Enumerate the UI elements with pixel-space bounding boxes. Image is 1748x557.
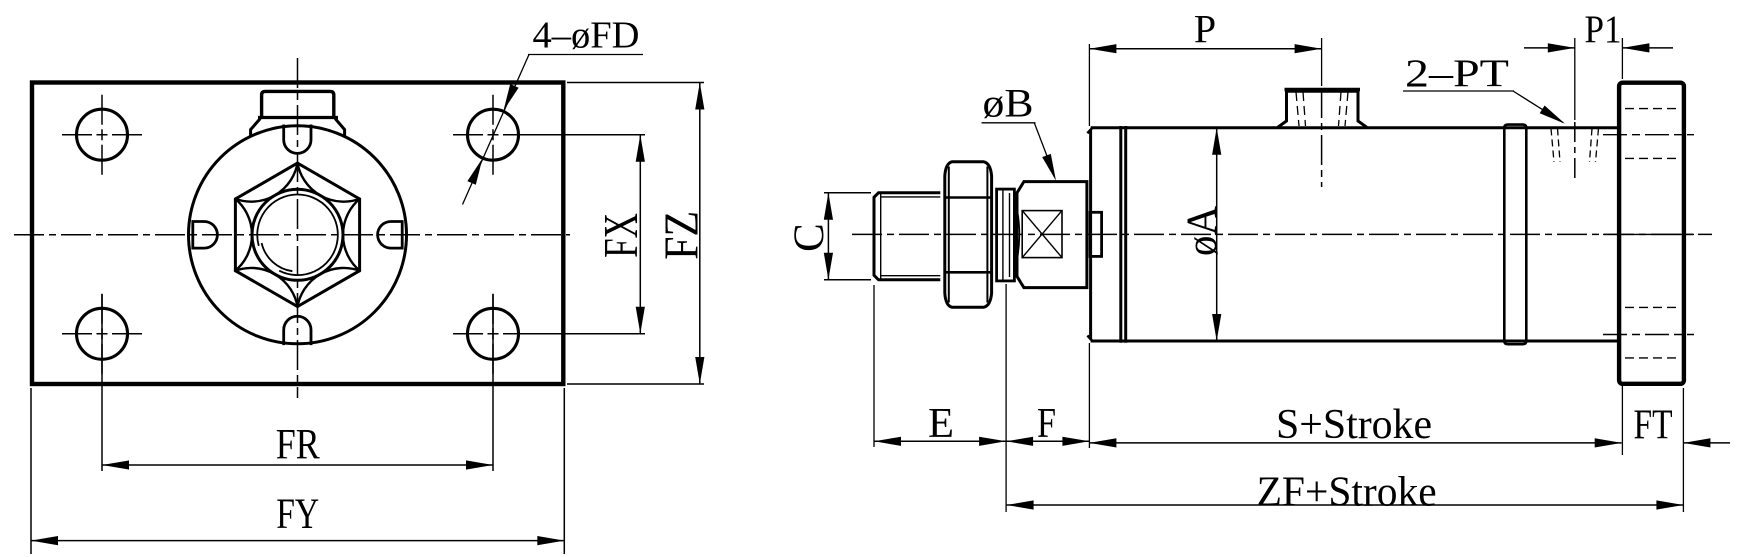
bolt hole bottom-left centermark <box>62 333 142 335</box>
spacer washer outline <box>997 189 1015 281</box>
bolt hole bottom-right <box>468 308 519 359</box>
bolt hole top-right centermark <box>453 134 533 136</box>
dim P1 line left part <box>1524 47 1575 49</box>
cylinder tube bottom <box>1091 340 1620 343</box>
rear port centerline <box>1574 122 1576 183</box>
head bottom chamfer <box>1087 336 1092 342</box>
leader 4-oFD arrow upper <box>504 84 519 111</box>
svg-text:øB: øB <box>983 81 1034 126</box>
extension line rod end E <box>873 285 875 447</box>
flange bolt hole top hidden lines <box>1625 108 1678 110</box>
leader 2-PT line <box>1513 91 1563 123</box>
svg-text:FT: FT <box>1634 403 1673 449</box>
svg-text:S+Stroke: S+Stroke <box>1276 402 1432 448</box>
dim FZ line <box>699 83 701 385</box>
front port boss top edge <box>1285 88 1361 91</box>
svg-text:4–øFD: 4–øFD <box>533 15 640 57</box>
slot bottom <box>284 316 311 345</box>
svg-text:FX: FX <box>593 213 648 258</box>
dim oA arrow bottom <box>1212 314 1221 341</box>
thread curl arc <box>262 243 293 271</box>
rod nut chamfer line bottom <box>945 271 992 274</box>
bolt hole top-right <box>468 109 519 160</box>
front port thread dashes right <box>1345 92 1348 126</box>
svg-text:P1: P1 <box>1585 8 1622 51</box>
flange plate outline <box>32 83 563 385</box>
front port thread dashes left <box>1296 92 1299 126</box>
extension line head face <box>1088 44 1090 126</box>
svg-text:F: F <box>1037 401 1056 447</box>
dim F arrow left <box>1006 437 1033 446</box>
bolt hole bottom-right centermark <box>453 333 533 335</box>
dim P1 extension left <box>1574 38 1576 120</box>
dim P1 arrow left <box>1548 43 1575 52</box>
bolt hole top-left <box>77 109 128 160</box>
dim F arrow right <box>1062 437 1089 446</box>
rod nut facet arc right <box>986 167 988 303</box>
dim E arrow right <box>979 437 1006 446</box>
wrench flat square <box>1022 211 1062 258</box>
front port boss <box>1277 91 1368 128</box>
dim oA line <box>1216 128 1218 341</box>
leader 2-PT arrow <box>1540 106 1565 124</box>
leader 2-PT underline <box>1403 90 1514 92</box>
cushion tab <box>1090 212 1102 256</box>
bolt hole top-left centermark <box>62 134 142 136</box>
piston rod stud outline <box>874 193 940 280</box>
slot right <box>378 222 403 249</box>
flange boss circle <box>189 126 407 344</box>
weld band <box>1504 125 1526 345</box>
rod nut outline <box>945 162 992 307</box>
rod end block outline <box>1017 182 1087 288</box>
extension line flange right <box>1682 388 1684 512</box>
centerline left-view vertical <box>297 58 299 398</box>
port boss right chamfer <box>335 119 345 137</box>
flange center horizontal line <box>1603 233 1694 235</box>
rod thread line bottom <box>881 275 941 277</box>
front port centerline <box>1321 88 1323 187</box>
hex nut outline <box>235 163 359 306</box>
rear port thread dashes right <box>1596 129 1599 163</box>
dim FR extension lines <box>101 294 103 471</box>
svg-text:FZ: FZ <box>654 211 709 260</box>
leader 4-oFD line <box>463 55 530 205</box>
svg-text:FY: FY <box>276 491 319 538</box>
svg-text:P: P <box>1194 7 1216 52</box>
centerline left-view horizontal <box>14 234 570 236</box>
dim S+Stroke line <box>1089 442 1621 444</box>
rear flange outline <box>1619 83 1684 384</box>
spacer washer inner line <box>1002 189 1004 281</box>
dim P arrow right <box>1295 44 1322 53</box>
port boss shoulder line <box>258 116 338 119</box>
dim P line <box>1089 48 1321 50</box>
centerline main axis <box>852 233 1712 235</box>
dim C arrow top <box>824 193 833 220</box>
head left face <box>1089 129 1092 339</box>
dim FY line <box>31 540 564 542</box>
svg-text:øA: øA <box>1179 206 1226 256</box>
svg-text:FR: FR <box>276 422 320 469</box>
dim FZ arrow bottom <box>695 357 704 384</box>
svg-text:ZF+Stroke: ZF+Stroke <box>1257 470 1437 516</box>
rod stud end chamfer line <box>880 194 882 280</box>
dim FT tail line <box>1683 442 1730 444</box>
dim oA arrow top <box>1212 128 1221 155</box>
dim P1 extension right <box>1621 38 1623 79</box>
dim ZF line <box>1007 504 1684 506</box>
dim C extension lines <box>824 192 871 194</box>
head-tube junction lines <box>1119 126 1122 343</box>
dim P1 arrow right <box>1622 43 1649 52</box>
dim FY extension lines <box>30 388 32 554</box>
extension line shoulder E/F/ZF <box>1005 284 1007 512</box>
bolt hole bottom-left <box>77 308 128 359</box>
dim FY arrow right <box>537 536 564 545</box>
svg-text:2–PT: 2–PT <box>1405 52 1509 95</box>
dim FX arrow bottom <box>636 307 645 334</box>
rod end fillet arc <box>1018 211 1020 258</box>
wrench flat diagonals <box>1022 211 1062 258</box>
cylinder tube top <box>1091 126 1620 129</box>
dim P arrow left <box>1089 44 1116 53</box>
rear port thread dashes left <box>1551 129 1554 163</box>
slot left <box>193 222 218 249</box>
head top chamfer <box>1087 128 1092 134</box>
extension line flange left <box>1621 386 1623 455</box>
flange bolt hole bottom hidden lines <box>1625 306 1678 308</box>
flange bolt hole bottom centerline <box>1603 334 1694 336</box>
svg-text:E: E <box>928 401 954 447</box>
dim FZ extension lines <box>567 82 704 84</box>
leader 4-oFD underline <box>528 54 643 56</box>
thread boss circle <box>252 189 343 280</box>
svg-text:C: C <box>786 223 833 252</box>
rod nut chamfer line top <box>945 196 992 199</box>
dim C arrow bottom <box>824 253 833 280</box>
thread major circle (3/4 arc) <box>257 195 338 276</box>
dim P1 line right part <box>1622 47 1673 49</box>
leader oB line <box>1034 123 1053 173</box>
dim E arrow left <box>874 437 901 446</box>
dim FR arrow left <box>102 460 129 469</box>
dim S arrow left <box>1089 438 1116 447</box>
port boss left chamfer <box>251 119 261 137</box>
dim P extension line right <box>1321 38 1323 86</box>
dim FX line <box>639 135 641 334</box>
dim FR line <box>102 464 493 466</box>
rod nut facet arc left <box>948 167 950 303</box>
leader oB arrow <box>1042 154 1056 181</box>
dim ZF arrow left <box>1007 500 1034 509</box>
port boss rectangle <box>262 91 334 117</box>
dim FX extension lines <box>521 134 645 136</box>
leader oB underline <box>982 122 1036 124</box>
dim FZ arrow top <box>695 83 704 110</box>
dim C line <box>827 193 829 280</box>
dim ZF arrow right <box>1656 500 1683 509</box>
dim FR arrow right <box>466 460 493 469</box>
rod thread line top <box>881 196 941 198</box>
dim S arrow right <box>1595 438 1622 447</box>
dim FX arrow top <box>636 135 645 162</box>
slot top <box>284 125 311 154</box>
leader 4-oFD arrow lower <box>467 158 482 185</box>
hex nut chamfer arcs <box>234 162 297 202</box>
dim E line <box>874 440 1006 442</box>
dim FY arrow left <box>31 536 58 545</box>
dim F line <box>1006 440 1089 442</box>
dim FT arrow right <box>1683 438 1710 447</box>
flange bolt hole top centerline <box>1603 134 1694 136</box>
